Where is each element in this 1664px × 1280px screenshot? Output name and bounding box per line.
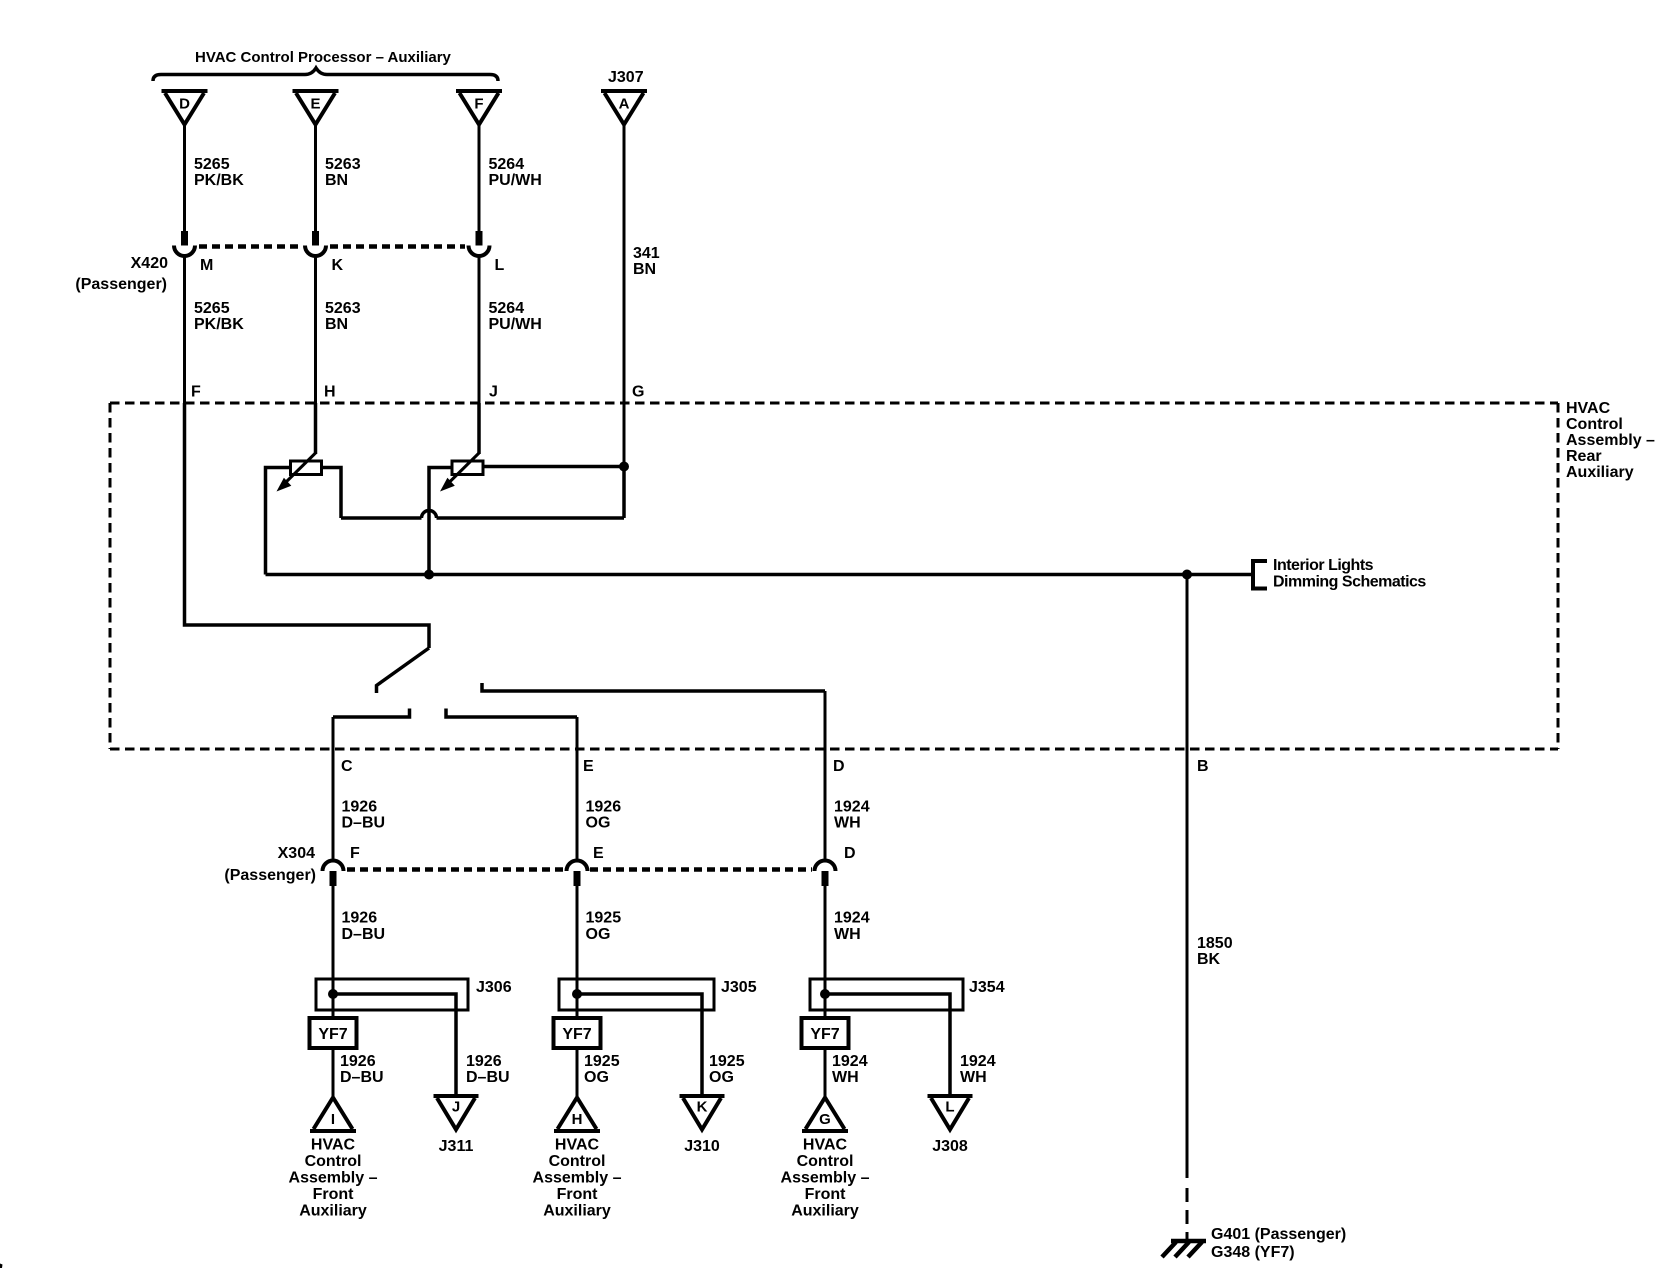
svg-text:L: L [495, 257, 505, 274]
connector X420 pin K [312, 231, 319, 246]
svg-text:Auxiliary: Auxiliary [543, 1203, 611, 1220]
ground G401/G348 [1171, 1239, 1206, 1244]
svg-text:HVAC: HVAC [1566, 400, 1611, 417]
terminal D (HVAC Control Processor - Auxiliary) [162, 89, 208, 93]
wire YF7 to terminal G [824, 1048, 827, 1098]
X420 dashed connector line [199, 244, 302, 249]
svg-text:F: F [191, 384, 201, 401]
svg-text:Assembly –: Assembly – [1566, 432, 1655, 449]
main wire to Interior Lights Dimming [266, 573, 1252, 577]
connector X420 pin L [476, 231, 483, 246]
svg-text:E: E [310, 96, 320, 113]
svg-text:J307: J307 [608, 69, 644, 86]
svg-text:D: D [844, 845, 856, 862]
svg-text:K: K [332, 257, 344, 274]
svg-text:Auxiliary: Auxiliary [299, 1203, 367, 1220]
stray ink artifact bottom-left [0, 1264, 3, 1269]
svg-text:5264: 5264 [489, 300, 525, 317]
terminal K (J310) [680, 1094, 725, 1098]
fuse block YF7 [554, 1018, 601, 1048]
svg-text:1926: 1926 [340, 1053, 376, 1070]
svg-text:Auxiliary: Auxiliary [1566, 464, 1634, 481]
svg-text:PU/WH: PU/WH [489, 316, 542, 333]
svg-text:341: 341 [633, 245, 660, 262]
wire 1925 OG (pin E to X304-E) [576, 717, 579, 860]
wire 1850 BK (pin B to ground) [1186, 575, 1189, 1179]
svg-text:OG: OG [709, 1069, 734, 1086]
svg-text:1924: 1924 [834, 799, 870, 816]
R-right right terminal wire to G node [484, 465, 625, 469]
wire 5264 PU/WH (F to X420-L) [478, 125, 481, 232]
svg-text:Front: Front [557, 1186, 599, 1203]
wire 5265 PK/BK (X420-M to pin F) [183, 258, 186, 404]
wire X304 to splice J305 [576, 886, 579, 1018]
svg-text:OG: OG [586, 815, 611, 832]
svg-text:M: M [200, 257, 213, 274]
switch contact C [333, 709, 410, 718]
svg-text:PK/BK: PK/BK [194, 172, 244, 189]
svg-text:L: L [945, 1099, 954, 1116]
svg-text:Rear: Rear [1566, 448, 1602, 465]
svg-text:Control: Control [305, 1153, 362, 1170]
wire pin J to variable resistor [477, 403, 481, 454]
svg-text:OG: OG [584, 1069, 609, 1086]
svg-text:1924: 1924 [834, 910, 870, 927]
terminal A (J307) [601, 89, 647, 93]
svg-text:(Passenger): (Passenger) [75, 276, 167, 293]
splice J305 [559, 979, 714, 1010]
terminal I (HVAC Control Assembly - Front Auxiliary) [310, 1129, 356, 1133]
svg-text:5263: 5263 [325, 300, 361, 317]
svg-text:1850: 1850 [1197, 935, 1233, 952]
svg-text:WH: WH [832, 1069, 859, 1086]
node center vertical / main wire [424, 570, 434, 580]
svg-text:HVAC: HVAC [311, 1137, 356, 1154]
splice J354 [810, 979, 963, 1010]
variable resistor R-left body [291, 461, 322, 475]
svg-text:YF7: YF7 [810, 1026, 839, 1043]
splice J306 [316, 979, 468, 1010]
connector X304 pin F [323, 861, 344, 871]
R-left left terminal wire [266, 468, 291, 575]
wire 5265 PK/BK (D to X420-M) [183, 125, 186, 232]
svg-text:YF7: YF7 [318, 1026, 347, 1043]
wire YF7 to terminal I [332, 1048, 335, 1098]
wire 5263 BN (E to X420-K) [314, 125, 317, 232]
svg-text:J305: J305 [721, 979, 757, 996]
svg-text:(Passenger): (Passenger) [224, 867, 316, 884]
svg-text:HVAC: HVAC [555, 1137, 600, 1154]
terminal J (J311) [434, 1094, 479, 1098]
svg-text:D: D [179, 96, 190, 113]
svg-text:HVAC: HVAC [803, 1137, 848, 1154]
svg-text:1926: 1926 [586, 799, 622, 816]
switch contact D [482, 683, 825, 691]
wire G node down to crossover line [622, 467, 626, 519]
svg-text:G401 (Passenger): G401 (Passenger) [1211, 1226, 1346, 1243]
node B wire / main wire [1182, 570, 1192, 580]
svg-text:Dimming Schematics: Dimming Schematics [1273, 574, 1426, 591]
svg-text:Assembly –: Assembly – [533, 1170, 622, 1187]
X304 dashed connector line [347, 867, 564, 872]
svg-text:PK/BK: PK/BK [194, 316, 244, 333]
svg-text:Assembly –: Assembly – [781, 1170, 870, 1187]
svg-text:HVAC Control Processor – Auxil: HVAC Control Processor – Auxiliary [195, 49, 452, 66]
svg-text:D–BU: D–BU [342, 926, 386, 943]
connector X304 pin E [567, 861, 588, 871]
svg-text:K: K [697, 1099, 708, 1116]
svg-text:5264: 5264 [489, 156, 525, 173]
wire 5264 PU/WH (X420-L to pin J) [478, 258, 481, 404]
svg-text:D: D [833, 758, 845, 775]
svg-text:J306: J306 [476, 979, 512, 996]
variable resistor R-right arrow [445, 453, 479, 487]
svg-text:I: I [331, 1111, 335, 1128]
svg-text:F: F [474, 96, 483, 113]
connector X420 pin M [181, 231, 188, 246]
svg-text:1925: 1925 [584, 1053, 620, 1070]
wire 341 BN (A to pin G) [623, 125, 626, 467]
svg-text:5263: 5263 [325, 156, 361, 173]
terminal E [293, 89, 339, 93]
switch blade [377, 648, 430, 693]
svg-text:5265: 5265 [194, 300, 230, 317]
terminal F [456, 89, 502, 93]
svg-text:Control: Control [797, 1153, 854, 1170]
wire pin F to switch blade [185, 403, 430, 648]
svg-text:WH: WH [834, 926, 861, 943]
wire X304 to splice J306 [332, 886, 335, 1018]
svg-text:BN: BN [325, 172, 348, 189]
fuse block YF7 [310, 1018, 357, 1048]
svg-text:B: B [1197, 758, 1209, 775]
terminal H (HVAC Control Assembly - Front Auxiliary) [554, 1129, 600, 1133]
svg-text:1925: 1925 [586, 910, 622, 927]
R-left right terminal wire [322, 468, 342, 519]
svg-text:WH: WH [834, 815, 861, 832]
svg-text:Interior Lights: Interior Lights [1273, 557, 1374, 574]
switch contact E [446, 709, 577, 718]
svg-text:G: G [819, 1111, 831, 1128]
svg-text:J308: J308 [932, 1138, 968, 1155]
svg-text:D–BU: D–BU [340, 1069, 384, 1086]
wire 1924 WH (pin D to X304-D) [824, 691, 827, 860]
svg-text:1925: 1925 [709, 1053, 745, 1070]
Interior Lights Dimming Schematics bracket [1253, 561, 1267, 589]
svg-text:F: F [350, 845, 360, 862]
svg-text:H: H [572, 1111, 583, 1128]
svg-text:E: E [583, 758, 594, 775]
crossover wire y518 with hump [341, 511, 624, 518]
svg-text:1926: 1926 [342, 910, 378, 927]
svg-text:YF7: YF7 [562, 1026, 591, 1043]
svg-text:E: E [593, 845, 604, 862]
wire 1926 D-BU (pin C to X304-F) [332, 717, 335, 860]
svg-text:G: G [632, 384, 644, 401]
svg-text:1926: 1926 [466, 1053, 502, 1070]
brace over HVAC Control Processor terminals [153, 68, 498, 81]
fuse block YF7 [802, 1018, 849, 1048]
svg-text:Assembly –: Assembly – [289, 1170, 378, 1187]
svg-text:A: A [619, 96, 630, 113]
svg-text:1926: 1926 [342, 799, 378, 816]
svg-text:Auxiliary: Auxiliary [791, 1203, 859, 1220]
svg-text:J: J [452, 1099, 460, 1116]
terminal G (HVAC Control Assembly - Front Auxiliary) [802, 1129, 848, 1133]
wire 5263 BN (X420-K to pin H) [314, 258, 317, 404]
svg-text:C: C [341, 758, 353, 775]
svg-text:H: H [324, 384, 336, 401]
wire pin H to variable resistor [314, 403, 318, 454]
svg-text:X304: X304 [278, 845, 315, 862]
svg-text:1924: 1924 [832, 1053, 868, 1070]
svg-text:Front: Front [313, 1186, 355, 1203]
svg-text:5265: 5265 [194, 156, 230, 173]
variable resistor R-right body [452, 461, 483, 475]
wire YF7 to terminal H [576, 1048, 579, 1098]
svg-text:OG: OG [586, 926, 611, 943]
variable resistor R-left arrow [282, 453, 316, 487]
svg-text:WH: WH [960, 1069, 987, 1086]
svg-text:J354: J354 [969, 979, 1005, 996]
svg-text:J: J [489, 384, 498, 401]
svg-text:Front: Front [805, 1186, 847, 1203]
svg-text:Control: Control [1566, 416, 1623, 433]
svg-text:BK: BK [1197, 951, 1221, 968]
wire X304 to splice J354 [824, 886, 827, 1018]
connector X304 pin D [815, 861, 836, 871]
svg-text:Control: Control [549, 1153, 606, 1170]
svg-text:BN: BN [325, 316, 348, 333]
svg-text:D–BU: D–BU [466, 1069, 510, 1086]
HVAC Control Assembly - Rear Auxiliary dashed box [110, 403, 1558, 749]
svg-text:BN: BN [633, 261, 656, 278]
svg-text:1924: 1924 [960, 1053, 996, 1070]
svg-text:G348 (YF7): G348 (YF7) [1211, 1244, 1295, 1261]
node at G wire junction [619, 462, 629, 472]
svg-text:X420: X420 [131, 255, 168, 272]
svg-text:PU/WH: PU/WH [489, 172, 542, 189]
svg-text:J310: J310 [684, 1138, 720, 1155]
terminal L (J308) [928, 1094, 973, 1098]
svg-text:J311: J311 [439, 1138, 474, 1155]
R-right left terminal wire to center vertical [429, 468, 452, 575]
svg-text:D–BU: D–BU [342, 815, 386, 832]
